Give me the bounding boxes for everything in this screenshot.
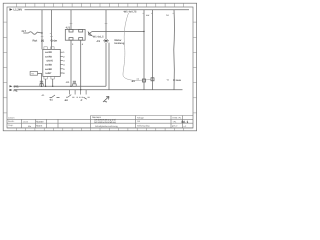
- wire from box down: [38, 73, 42, 86]
- svg-text:3min: 3min: [176, 79, 182, 82]
- frame inner border: [7, 7, 193, 128]
- wire tick x42: [41, 35, 44, 37]
- svg-text:Ort: Ort: [137, 120, 140, 123]
- wire block bottom left down: [45, 79, 47, 86]
- svg-text:-B2: -B2: [64, 99, 69, 102]
- svg-text:-P: -P: [80, 99, 83, 102]
- svg-text:-W1 4x1,5: -W1 4x1,5: [92, 36, 104, 39]
- wire tick x71: [70, 22, 73, 24]
- svg-text:br/BT: br/BT: [46, 72, 53, 75]
- pin tab top right: [51, 47, 54, 50]
- svg-text:-W1 4x0,75: -W1 4x0,75: [123, 11, 137, 14]
- svg-text:Siemens: Siemens: [92, 116, 102, 119]
- wire drop x144: [143, 10, 145, 90]
- power supply box G1: [30, 72, 37, 76]
- title middle fields: [137, 116, 145, 123]
- connector X1 arrows: [103, 39, 109, 42]
- frame row ticks left and right: [3, 22, 196, 113]
- svg-text:-X1: -X1: [96, 40, 101, 43]
- svg-text:Rot: Rot: [33, 39, 38, 43]
- wire block bottom right down: [52, 79, 54, 86]
- pin tabs bottom: [44, 76, 47, 79]
- chassis arrow bottom of x108: [103, 97, 109, 103]
- svg-text:Mann: Mann: [36, 124, 43, 127]
- title block handwriting blobs: [36, 120, 44, 127]
- hook on x174 top: [173, 12, 175, 14]
- title block: [7, 116, 193, 128]
- svg-text:GNYE: GNYE: [47, 60, 54, 63]
- svg-text:ws/RD: ws/RD: [45, 51, 52, 54]
- terminal bars on x41.5: [40, 81, 43, 83]
- svg-text:Datum: Datum: [8, 116, 15, 119]
- title right fields: [172, 116, 182, 123]
- hook on x51.4: [50, 33, 52, 35]
- pin tab top left: [44, 47, 47, 50]
- svg-text:ws/BD: ws/BD: [45, 64, 52, 67]
- svg-text:-B1: -B1: [131, 80, 136, 83]
- cable curve: [123, 13, 151, 80]
- hook on x152.5 top: [151, 12, 153, 14]
- junction dots on buses: [45, 86, 46, 87]
- svg-text:Schaltplanbezeichnung: Schaltplanbezeichnung: [95, 125, 118, 128]
- svg-text:[4]: [4]: [41, 40, 44, 43]
- svg-text:-S1: -S1: [49, 99, 53, 102]
- svg-text:br: br: [167, 14, 169, 17]
- svg-text:=ANL+A1: =ANL+A1: [172, 116, 182, 119]
- svg-text:Bearb.: Bearb.: [8, 120, 15, 123]
- node arrow left bus1: [10, 85, 13, 87]
- block internal text rows: [45, 51, 53, 75]
- contact box on bus x74.5: [73, 84, 77, 86]
- bus lower right segment: [109, 89, 183, 91]
- wire +24V top bus: [25, 9, 190, 11]
- frame outer border: [3, 3, 196, 131]
- svg-text:Seilweg.dwg: Seilweg.dwg: [137, 125, 150, 128]
- title block small labels left: [8, 116, 29, 127]
- wire U1 pin3 down: [70, 40, 72, 86]
- pressure switch chain: [66, 95, 90, 100]
- IC U1: [65, 29, 85, 40]
- node arrow left bus2: [10, 89, 13, 91]
- switch S1 below bus left: [50, 95, 60, 98]
- junction x174: [173, 79, 175, 81]
- wire drop x174 wavy: [173, 10, 176, 90]
- diode arrow V1 right of U1: [88, 32, 92, 36]
- svg-text:22 f: 22 f: [22, 30, 27, 33]
- svg-text:Gepr.: Gepr.: [8, 124, 14, 127]
- wire drop x71 to U1: [70, 10, 72, 30]
- svg-text:12.04: 12.04: [23, 120, 29, 123]
- wire U1 pin4 down: [80, 40, 82, 89]
- wire drop x152.5: [152, 10, 154, 90]
- small square on x152.5: [151, 78, 154, 81]
- wire pair below X1: [105, 43, 107, 87]
- svg-text:-U1: -U1: [66, 26, 71, 30]
- frame column ticks top: [16, 3, 183, 7]
- wire drop x42: [41, 10, 43, 50]
- wire drop x51.4: [50, 10, 52, 50]
- wire corner into buses: [14, 85, 106, 87]
- big block A1: [43, 49, 61, 76]
- svg-text:Heizung: Heizung: [115, 42, 125, 45]
- svg-text:Grün: Grün: [51, 39, 58, 43]
- stubs below lower bus: [70, 90, 87, 95]
- svg-text:sw/BD: sw/BD: [45, 68, 52, 71]
- pin numbers right: [63, 51, 65, 75]
- frame column ticks bottom: [16, 128, 183, 131]
- svg-text:sw: sw: [146, 14, 149, 17]
- small square on x144: [143, 79, 146, 82]
- svg-text:sw/RD: sw/RD: [45, 55, 52, 58]
- svg-text:Anlage: Anlage: [137, 116, 145, 119]
- svg-text:ges.2: ges.2: [172, 125, 178, 128]
- wire drop x106 motor feed: [105, 10, 107, 39]
- junction dot x41.5 bus: [41, 86, 42, 87]
- svg-text:PE: PE: [14, 88, 18, 92]
- wire tick x51.4: [50, 35, 53, 37]
- wire tick x106: [105, 23, 108, 25]
- svg-text:Schaltplandarstellung: Schaltplandarstellung: [94, 121, 117, 124]
- block pin stubs right: [60, 52, 63, 73]
- svg-text:Bl. 1: Bl. 1: [182, 120, 189, 124]
- terminal bars x74.5: [73, 81, 76, 83]
- node L+ interruption arrow top-left: [10, 8, 13, 11]
- junction x144 y31.4: [143, 31, 144, 32]
- title description text: [92, 116, 117, 124]
- fuse F1: [23, 32, 42, 35]
- junction dot fuse to wire: [41, 32, 42, 33]
- hook on x144 top: [143, 12, 145, 14]
- contact box on bus x42: [40, 84, 43, 86]
- wire y31.4 from arrow to x144: [92, 30, 144, 32]
- svg-text:L1.24V: L1.24V: [14, 9, 23, 12]
- svg-text:Muster: Muster: [36, 120, 44, 123]
- svg-text:-K1: -K1: [66, 81, 71, 84]
